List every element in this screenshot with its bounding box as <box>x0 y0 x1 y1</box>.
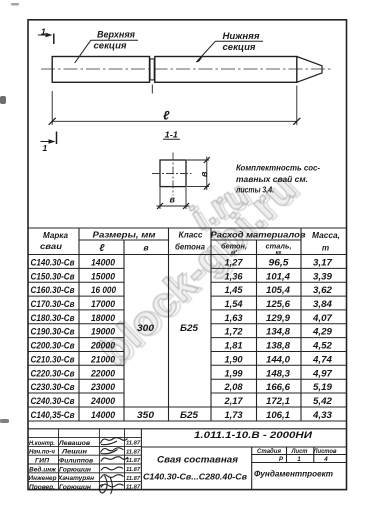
svg-text:1,72: 1,72 <box>225 327 243 337</box>
svg-text:С140.30-Св: С140.30-Св <box>31 258 75 268</box>
svg-text:Свая составная: Свая составная <box>157 455 238 466</box>
svg-text:Стадия: Стадия <box>257 448 281 455</box>
svg-text:4,97: 4,97 <box>312 368 333 378</box>
svg-text:15000: 15000 <box>91 271 115 281</box>
svg-text:1-1: 1-1 <box>165 130 179 140</box>
pile joint <box>150 59 154 80</box>
svg-text:105,4: 105,4 <box>266 285 290 295</box>
svg-text:Хачатурян: Хачатурян <box>57 475 94 482</box>
svg-text:18000: 18000 <box>91 313 115 323</box>
svg-text:Провер.: Провер. <box>29 484 55 491</box>
svg-text:С190.30-Св: С190.30-Св <box>31 327 75 337</box>
svg-text:4: 4 <box>323 456 328 463</box>
svg-text:1: 1 <box>41 27 46 37</box>
svg-text:20000: 20000 <box>90 341 115 351</box>
scan artifact marks <box>0 3 19 423</box>
svg-text:1: 1 <box>43 143 48 153</box>
svg-text:Класс: Класс <box>179 231 203 240</box>
svg-text:С170.30-Св: С170.30-Св <box>31 299 75 309</box>
svg-text:1,99: 1,99 <box>225 368 243 378</box>
svg-text:11.87: 11.87 <box>126 449 141 455</box>
svg-text:11.87: 11.87 <box>126 485 141 491</box>
svg-text:С180.30-Св: С180.30-Св <box>31 313 75 323</box>
svg-text:Лист: Лист <box>291 448 308 455</box>
signatures <box>99 438 128 494</box>
svg-text:листы 3,4.: листы 3,4. <box>235 185 274 195</box>
svg-text:350: 350 <box>137 410 154 420</box>
pile upper section <box>52 57 149 83</box>
svg-text:4,52: 4,52 <box>312 341 332 351</box>
svg-text:С220.30-Св: С220.30-Св <box>31 368 75 378</box>
svg-text:Марка: Марка <box>43 230 68 240</box>
border frame <box>28 20 347 490</box>
svg-text:14000: 14000 <box>91 410 115 420</box>
svg-text:кг: кг <box>276 250 282 256</box>
svg-text:С210.30-Св: С210.30-Св <box>31 354 75 364</box>
svg-text:96,5: 96,5 <box>269 258 290 268</box>
svg-text:в: в <box>170 195 176 205</box>
svg-text:144,0: 144,0 <box>266 354 290 364</box>
svg-text:Размеры, мм: Размеры, мм <box>93 230 157 240</box>
svg-text:11.87: 11.87 <box>126 476 141 482</box>
svg-text:19000: 19000 <box>91 327 115 337</box>
section mark bottom <box>41 132 57 145</box>
svg-text:1: 1 <box>297 456 301 463</box>
svg-text:17000: 17000 <box>91 299 115 309</box>
svg-text:16 000: 16 000 <box>91 285 116 295</box>
svg-text:С230.30-Св: С230.30-Св <box>31 382 75 392</box>
svg-text:Н.контр.: Н.контр. <box>29 440 55 447</box>
svg-text:5,19: 5,19 <box>313 382 332 392</box>
svg-text:С140,35-Св: С140,35-Св <box>31 410 75 420</box>
svg-text:Комплектность сос-: Комплектность сос- <box>236 163 320 173</box>
svg-text:С140.30-Св...С280.40-Св: С140.30-Св...С280.40-Св <box>143 473 247 482</box>
svg-text:Верхняя: Верхняя <box>97 30 136 40</box>
svg-text:134,8: 134,8 <box>266 327 290 337</box>
svg-text:Лешин: Лешин <box>61 449 87 456</box>
table grid <box>28 228 347 421</box>
svg-text:Филиппов: Филиппов <box>59 458 93 465</box>
svg-text:ℓ: ℓ <box>163 109 170 123</box>
dimension b bottom <box>157 188 190 210</box>
svg-text:166,6: 166,6 <box>266 382 291 392</box>
name block texts <box>29 440 95 491</box>
watermark <box>89 162 309 377</box>
svg-text:в: в <box>143 243 149 253</box>
svg-text:Левашов: Левашов <box>58 440 90 447</box>
svg-text:м³: м³ <box>231 249 237 256</box>
svg-text:Масса,: Масса, <box>312 230 340 240</box>
svg-text:Инженер: Инженер <box>29 475 57 482</box>
svg-text:С150.30-Св: С150.30-Св <box>31 271 75 281</box>
svg-text:11.87: 11.87 <box>126 441 141 447</box>
svg-text:С240.30-Св: С240.30-Св <box>31 396 75 406</box>
svg-text:1,90: 1,90 <box>225 354 243 364</box>
svg-text:бетона: бетона <box>175 242 205 252</box>
svg-text:ГИП: ГИП <box>35 458 49 465</box>
svg-text:172,1: 172,1 <box>266 396 290 406</box>
svg-text:21000: 21000 <box>90 354 115 364</box>
svg-text:2,17: 2,17 <box>223 396 243 406</box>
table body <box>31 258 334 420</box>
svg-text:Нач.по-ч: Нач.по-ч <box>29 449 55 456</box>
dates <box>126 441 141 491</box>
svg-text:3,39: 3,39 <box>313 271 332 281</box>
joint extension tick <box>151 85 153 94</box>
svg-text:1,54: 1,54 <box>225 299 243 309</box>
svg-text:Б25: Б25 <box>180 410 199 420</box>
svg-text:4,33: 4,33 <box>312 410 332 420</box>
pile tip <box>297 57 322 83</box>
svg-text:Б25: Б25 <box>180 323 199 333</box>
svg-text:Расход материалов: Расход материалов <box>211 230 306 240</box>
section mark top <box>38 34 54 45</box>
svg-text:Горюшин: Горюшин <box>59 484 91 491</box>
svg-text:14000: 14000 <box>91 258 115 268</box>
svg-text:Вед.инж: Вед.инж <box>29 465 57 473</box>
svg-text:т: т <box>322 244 329 253</box>
svg-text:3,62: 3,62 <box>313 285 332 295</box>
name block grid <box>28 429 141 490</box>
svg-text:4,29: 4,29 <box>312 327 332 337</box>
svg-text:101,4: 101,4 <box>266 271 290 281</box>
pile centerline <box>41 68 331 70</box>
dimension b right <box>187 157 210 191</box>
svg-text:ℓ: ℓ <box>99 243 105 254</box>
svg-text:22000: 22000 <box>90 368 115 378</box>
svg-text:5,42: 5,42 <box>313 396 332 406</box>
svg-text:Листов: Листов <box>313 448 337 455</box>
svg-text:1,45: 1,45 <box>225 285 244 295</box>
svg-text:3,17: 3,17 <box>313 258 333 268</box>
svg-text:129,9: 129,9 <box>266 313 290 323</box>
svg-text:23000: 23000 <box>90 382 115 392</box>
svg-text:1,36: 1,36 <box>225 271 244 281</box>
svg-text:Горюшин: Горюшин <box>59 466 91 473</box>
svg-text:24000: 24000 <box>90 396 115 406</box>
svg-text:11.87: 11.87 <box>126 467 141 473</box>
table header <box>40 230 340 257</box>
svg-text:1,27: 1,27 <box>225 258 244 268</box>
svg-text:4,74: 4,74 <box>312 354 332 364</box>
svg-text:1,63: 1,63 <box>225 313 243 323</box>
svg-text:секция: секция <box>223 42 257 52</box>
svg-text:С200.30-Св: С200.30-Св <box>31 341 75 351</box>
svg-text:Фундаментпроект: Фундаментпроект <box>254 469 333 479</box>
svg-text:138,8: 138,8 <box>266 341 290 351</box>
svg-text:2,08: 2,08 <box>223 382 242 392</box>
svg-text:4,07: 4,07 <box>312 313 333 323</box>
svg-text:сваи: сваи <box>40 241 63 251</box>
svg-text:1.011.1-10.В - 2000НИ: 1.011.1-10.В - 2000НИ <box>194 430 312 441</box>
note text <box>235 163 320 195</box>
section square <box>160 160 186 187</box>
svg-text:тавных свай см.: тавных свай см. <box>236 174 308 184</box>
section centerlines <box>172 153 174 196</box>
svg-text:300: 300 <box>137 323 154 333</box>
svg-text:106,1: 106,1 <box>266 410 290 420</box>
svg-text:в: в <box>199 171 209 177</box>
svg-text:С160.30-Св: С160.30-Св <box>31 285 75 295</box>
pile lower section <box>155 57 297 83</box>
svg-text:1,81: 1,81 <box>225 341 243 351</box>
table row lines <box>28 268 347 407</box>
svg-text:1,73: 1,73 <box>225 410 243 420</box>
dimension L <box>49 86 301 126</box>
svg-text:125,6: 125,6 <box>266 299 291 309</box>
svg-text:148,3: 148,3 <box>266 368 290 378</box>
svg-text:Нижняя: Нижняя <box>223 31 261 41</box>
svg-text:3,84: 3,84 <box>313 299 332 309</box>
title block outer <box>28 429 347 490</box>
svg-text:секция: секция <box>94 41 128 51</box>
svg-text:11.87: 11.87 <box>126 458 141 464</box>
